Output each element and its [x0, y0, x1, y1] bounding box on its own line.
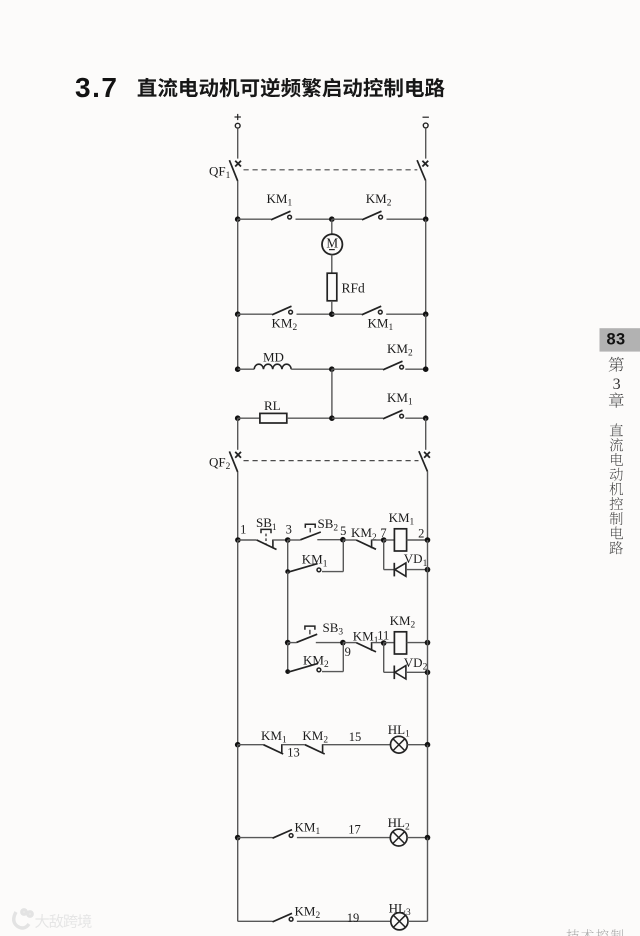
svg-text:KM2: KM2: [295, 903, 321, 921]
wire SB3 to node 9: [316, 642, 343, 644]
svg-text:KM2: KM2: [302, 728, 328, 746]
contact KM1 NO (row D): [273, 830, 294, 839]
wire right rail QF1 to row KM1/KM2: [425, 181, 427, 220]
wire row C to KM1 NC: [238, 744, 264, 746]
node VD1 right rail: [425, 567, 431, 573]
wire KM1 NC to node 11: [372, 642, 384, 644]
node right rail row1: [423, 216, 429, 222]
wire left rail QF2 to control row A: [237, 472, 239, 540]
lamp HL2 (forward running): [390, 829, 407, 846]
svg-text:SB3: SB3: [323, 620, 344, 638]
breaker QF1 right pole blade: [417, 160, 426, 181]
wire row1 KM1 to centre node: [296, 218, 332, 220]
lamp HL1 (both contactors off): [391, 736, 408, 753]
sidebar chapter heading 第3章 vertical: [609, 357, 624, 372]
wire node5 to KM2 NC: [343, 539, 356, 541]
node 11: [381, 640, 387, 646]
wire right rail row1 to row2: [425, 219, 427, 314]
wire left rail row C to row D: [237, 745, 239, 838]
resistor RFd: [327, 273, 337, 301]
wire left rail row1 to row2: [237, 219, 239, 314]
contact KM1 NC interlock (row B): [356, 642, 376, 652]
svg-text:VD2: VD2: [404, 655, 428, 673]
wire 17 to lamp HL2: [297, 837, 390, 839]
svg-text:2: 2: [418, 527, 424, 541]
breaker QF1 left pole X contact: [235, 161, 241, 167]
svg-text:3: 3: [613, 376, 621, 393]
node left rail row D: [235, 835, 241, 841]
breaker QF1 linkage dashed line: [244, 169, 418, 171]
wire node 13 segment: [282, 744, 305, 746]
lamp HL3 (reverse running): [391, 913, 408, 930]
sidebar chapter title 直流电动机控制电路 vertical: [610, 423, 623, 436]
wire MD inductor to centre node: [291, 368, 332, 370]
wire to SB3: [288, 642, 297, 644]
wire node7 down to VD1: [383, 540, 385, 570]
wire row1 KM2 to right rail: [387, 218, 426, 220]
wire row2 left rail to KM2 contact: [238, 313, 272, 315]
node right rail row B: [425, 640, 431, 646]
node MD row centre: [329, 366, 335, 372]
contact KM2 MD row (NO): [383, 361, 404, 370]
wire 15 to lamp HL1: [323, 744, 391, 746]
wire left rail row D to row E: [237, 838, 239, 922]
svg-text:KM1: KM1: [261, 728, 287, 746]
contact KM2 self-holding (NO): [288, 664, 321, 673]
breaker QF1 left pole blade: [229, 160, 237, 181]
wire node11 to KM2 coil: [384, 642, 395, 644]
svg-text:SB2: SB2: [318, 516, 339, 534]
node left rail row2: [235, 311, 241, 317]
wire row2 KM1 to right rail: [386, 313, 426, 315]
wire motor to resistor RFd: [331, 255, 333, 274]
contact KM2 NO (row E): [273, 913, 294, 922]
svg-text:KM2: KM2: [272, 315, 298, 333]
svg-text:VD1: VD1: [404, 551, 428, 569]
svg-text:19: 19: [347, 911, 360, 925]
watermark text 大敌跨境: [35, 914, 49, 928]
wire right rail row B to row C: [427, 643, 429, 745]
node row2 centre (RFd branch): [329, 311, 335, 317]
resistor RL: [260, 413, 287, 423]
node VD2 right rail: [425, 670, 431, 676]
svg-text:13: 13: [287, 745, 300, 759]
node row1 centre (motor branch): [329, 216, 335, 222]
node 9: [340, 640, 346, 646]
wire MD row centre to KM2 contact: [332, 368, 383, 370]
wire HL1 to right rail: [407, 744, 427, 746]
svg-text:SB1: SB1: [256, 515, 277, 533]
svg-text:HL2: HL2: [388, 815, 410, 833]
pushbutton SB2 (NO forward start): [300, 524, 320, 539]
wire node3 branch down to row B: [287, 572, 289, 643]
wire RL row centre to KM1 contact: [332, 417, 383, 419]
wire left rail row A to row C: [237, 540, 239, 745]
node left rail row C: [235, 742, 241, 748]
svg-text:KM2: KM2: [387, 341, 413, 359]
wire node1 to SB1: [238, 539, 257, 541]
breaker QF2 right pole X contact: [424, 452, 430, 458]
contact KM1 NC (row C): [263, 744, 283, 754]
svg-text:HL1: HL1: [388, 722, 410, 740]
svg-text:M: M: [326, 235, 338, 250]
motor M armature: [322, 234, 342, 254]
wire node3 to SB2: [288, 539, 301, 541]
node 2 (right rail row A): [425, 537, 431, 543]
watermark logo bottom-left: [14, 910, 32, 928]
wire row D to KM1 NO: [238, 837, 273, 839]
coil KM2 (contactor): [394, 632, 406, 654]
watermark bottom-right partial text: [566, 929, 579, 936]
svg-text:3.7: 3.7: [75, 72, 118, 103]
wire RL row left rail to resistor: [238, 417, 260, 419]
pushbutton SB1 (NC stop): [257, 529, 277, 549]
contact KM1 row2 (NO): [362, 306, 382, 315]
wire to VD2 cathode: [384, 671, 395, 673]
wire MD row left rail to inductor: [238, 368, 255, 370]
node SB3 left: [285, 640, 291, 646]
svg-text:KM2: KM2: [390, 613, 416, 631]
wire row1 centre to KM2 contact: [332, 218, 362, 220]
wire centre node to motor: [331, 219, 333, 234]
wire SB2 to node 5: [317, 539, 343, 541]
wire node7 to KM1 coil: [384, 539, 395, 541]
svg-text:HL3: HL3: [389, 900, 411, 918]
wire MD row KM2 to right rail: [405, 368, 425, 370]
contact KM1 (NO, forward): [271, 211, 292, 220]
diode VD1 (freewheeling): [394, 563, 406, 577]
wire VD1 anode to right rail: [406, 569, 428, 571]
wire right rail row C to row D: [427, 745, 429, 838]
svg-text:KM1: KM1: [302, 552, 328, 570]
svg-text:KM1: KM1: [368, 316, 394, 334]
svg-text:KM1: KM1: [389, 510, 415, 528]
svg-text:15: 15: [349, 730, 362, 744]
svg-text:9: 9: [345, 645, 351, 659]
breaker QF1 right pole X contact: [422, 161, 428, 167]
sidebar page number box: [600, 328, 640, 351]
node left rail MD row: [235, 366, 241, 372]
contact KM1 self-holding (NO): [288, 564, 321, 573]
inductor MD (field winding): [254, 364, 291, 369]
breaker QF2 left pole blade: [229, 451, 237, 472]
node right rail row D: [425, 835, 431, 841]
svg-text:KM1: KM1: [295, 820, 321, 838]
svg-text:3: 3: [286, 522, 292, 536]
wire up to node 5: [342, 540, 344, 572]
svg-text:1: 1: [240, 522, 246, 536]
wire row2 KM2 to centre node: [297, 313, 332, 315]
node 7: [381, 537, 387, 543]
wire right rail QF2 to node 2: [427, 472, 429, 540]
svg-text:KM2: KM2: [366, 191, 392, 209]
wire right rail node2 to row B: [427, 540, 429, 643]
node self-hold KM2 left: [285, 669, 290, 674]
wire HL2 to right rail: [407, 837, 427, 839]
wire right rail row2 to MD row: [425, 314, 427, 369]
wire KM1 coil to node 2: [407, 539, 428, 541]
svg-text:KM2: KM2: [303, 653, 329, 671]
wire SB3-left down to self-hold KM2: [287, 643, 289, 672]
wire 19 to lamp HL3: [297, 920, 391, 922]
node left rail RL row: [235, 415, 241, 421]
node right rail MD row: [423, 366, 429, 372]
svg-text:MD: MD: [263, 349, 284, 364]
node 1 (left rail row A): [235, 537, 241, 543]
wire self-hold KM2 to node9 branch: [322, 671, 343, 673]
wire right rail row D to row E: [427, 838, 429, 922]
wire VD2 anode to right rail: [406, 671, 428, 673]
wire HL3 to right rail: [408, 920, 428, 922]
terminal + (positive supply): [235, 114, 241, 128]
node right rail row C: [425, 742, 431, 748]
wire node3 down to self-hold KM1: [287, 540, 289, 572]
wire RL resistor to centre node: [287, 417, 332, 419]
diode VD2 (freewheeling): [394, 666, 406, 680]
contact KM2 row2 (NO): [272, 306, 293, 315]
coil KM1 (contactor): [394, 529, 406, 551]
pushbutton SB3 (NO reverse start): [297, 626, 318, 642]
svg-text:RL: RL: [264, 398, 281, 413]
wire SB1 to node 3: [273, 539, 288, 541]
svg-text:17: 17: [348, 823, 361, 837]
svg-text:KM1: KM1: [267, 191, 293, 209]
breaker QF2 right pole blade: [419, 451, 428, 471]
wire right rail RL row to QF2: [425, 418, 427, 450]
breaker QF2 linkage dashed line: [244, 460, 419, 462]
breaker QF2 left pole X contact: [235, 452, 241, 458]
contact KM2 NC interlock (row A): [356, 540, 376, 550]
wire left rail RL row to QF2: [237, 418, 239, 450]
wire self-hold KM1 to node5 branch: [322, 571, 343, 573]
wire left rail QF1 to row KM1/KM2: [237, 181, 239, 219]
svg-text:7: 7: [380, 526, 386, 540]
contact KM1 RL row (NO): [383, 410, 404, 419]
wire centre MD row to RL row: [331, 369, 333, 418]
wire row E to KM2 NO: [238, 920, 273, 922]
node right rail RL row: [423, 415, 429, 421]
contact KM2 (NO, reverse): [362, 211, 383, 220]
node 5: [340, 537, 346, 543]
wire RL row KM1 to right rail: [405, 417, 425, 419]
node right rail row2: [423, 311, 429, 317]
wire RFd to row2: [331, 301, 333, 314]
svg-text:83: 83: [606, 330, 625, 348]
wire node11 down to VD2: [383, 643, 385, 673]
svg-text:QF1: QF1: [209, 164, 231, 182]
wire node9 to KM1 NC: [343, 642, 356, 644]
node left rail row1: [235, 216, 241, 222]
node 3: [285, 537, 291, 543]
wire row2 centre to KM1 contact: [332, 313, 362, 315]
svg-text:KM1: KM1: [387, 390, 413, 408]
svg-text:QF2: QF2: [209, 455, 231, 473]
wire KM2 coil to right rail: [407, 642, 428, 644]
wire + terminal to QF1 left pole: [237, 128, 239, 158]
wire up to node 9: [342, 643, 344, 672]
wire row1 left rail to KM1 contact: [238, 218, 271, 220]
wire - terminal to QF1 right pole: [425, 128, 427, 159]
svg-text:RFd: RFd: [342, 281, 366, 296]
wire left rail row2 to MD row: [237, 314, 239, 369]
terminal - (negative supply): [423, 117, 429, 128]
wire to VD1 cathode: [384, 569, 395, 571]
svg-text:11: 11: [377, 628, 389, 642]
contact KM2 NC (row C): [305, 744, 325, 754]
wire KM2 NC to node 7: [372, 539, 384, 541]
node self-hold KM1 left: [285, 569, 290, 574]
svg-text:5: 5: [340, 524, 346, 538]
section title 直流电动机可逆频繁启动控制电路: [138, 78, 445, 98]
node RL row centre: [329, 415, 335, 421]
